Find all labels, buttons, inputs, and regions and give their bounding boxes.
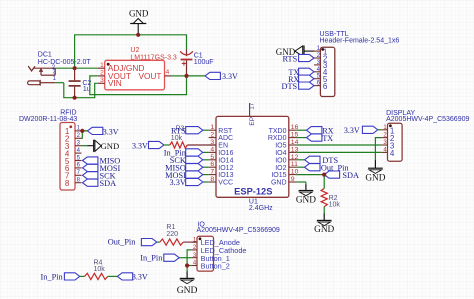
svg-text:2.4GHz: 2.4GHz xyxy=(249,205,273,212)
svg-text:Header-Female-2.54_1x6: Header-Female-2.54_1x6 xyxy=(320,38,400,45)
svg-text:U2: U2 xyxy=(130,47,139,54)
svg-text:IO16: IO16 xyxy=(218,150,233,157)
svg-text:TXD0: TXD0 xyxy=(269,128,287,135)
svg-text:IO2: IO2 xyxy=(275,165,286,172)
svg-text:10k: 10k xyxy=(94,266,106,273)
svg-text:A2005HWV-4P_C5366909: A2005HWV-4P_C5366909 xyxy=(197,227,280,234)
svg-text:2: 2 xyxy=(210,132,214,139)
svg-text:10k: 10k xyxy=(171,135,183,142)
svg-text:GND: GND xyxy=(271,180,287,187)
svg-text:220: 220 xyxy=(166,231,178,238)
svg-text:8: 8 xyxy=(65,179,70,188)
svg-text:Button_2: Button_2 xyxy=(201,262,230,271)
svg-text:A2005HWV-4P_C5366909: A2005HWV-4P_C5366909 xyxy=(386,116,469,123)
svg-text:1: 1 xyxy=(210,124,214,131)
svg-text:17: 17 xyxy=(249,102,256,110)
svg-text:6: 6 xyxy=(210,161,214,168)
svg-text:HC-DC-005-2.0T: HC-DC-005-2.0T xyxy=(38,59,92,66)
svg-text:IO4: IO4 xyxy=(275,150,286,157)
svg-text:ESP-12S: ESP-12S xyxy=(234,187,272,197)
svg-text:100uF: 100uF xyxy=(194,59,214,66)
svg-text:SDA: SDA xyxy=(100,179,117,188)
svg-text:GND: GND xyxy=(365,174,385,184)
svg-text:5: 5 xyxy=(210,154,214,161)
svg-text:3.3V: 3.3V xyxy=(132,141,148,150)
svg-text:VCC: VCC xyxy=(218,180,233,187)
svg-text:9: 9 xyxy=(291,176,295,183)
svg-text:IO5: IO5 xyxy=(275,143,286,150)
svg-text:3.3V: 3.3V xyxy=(344,126,360,135)
svg-text:8: 8 xyxy=(210,176,214,183)
svg-text:EP: EP xyxy=(249,117,256,126)
svg-text:GND: GND xyxy=(101,141,120,151)
svg-text:IO12: IO12 xyxy=(218,165,233,172)
svg-text:IO13: IO13 xyxy=(218,172,233,179)
svg-text:EN: EN xyxy=(218,143,228,150)
svg-text:VOUT: VOUT xyxy=(138,71,161,81)
svg-text:In_Pin: In_Pin xyxy=(140,254,163,263)
svg-text:GND: GND xyxy=(296,195,316,205)
svg-text:RTS: RTS xyxy=(282,54,297,63)
svg-text:VIN: VIN xyxy=(108,78,122,88)
svg-text:SDA: SDA xyxy=(342,171,359,180)
svg-text:RXD0: RXD0 xyxy=(268,135,287,142)
svg-text:6: 6 xyxy=(323,82,328,91)
svg-text:DW200R-11-08-43: DW200R-11-08-43 xyxy=(19,116,77,123)
svg-text:4: 4 xyxy=(210,146,214,153)
svg-text:IO14: IO14 xyxy=(218,157,233,164)
svg-text:Out_Pin: Out_Pin xyxy=(108,238,137,247)
svg-text:3.3V: 3.3V xyxy=(170,178,186,187)
svg-text:10k: 10k xyxy=(329,201,341,208)
svg-text:DTS: DTS xyxy=(282,82,298,91)
svg-text:RST: RST xyxy=(218,128,233,135)
svg-text:GND: GND xyxy=(129,8,149,18)
svg-text:ADC: ADC xyxy=(218,135,233,142)
svg-text:In_Pin: In_Pin xyxy=(41,273,64,282)
svg-text:GND: GND xyxy=(177,285,198,296)
svg-text:3.3V: 3.3V xyxy=(222,72,238,81)
svg-text:3.3V: 3.3V xyxy=(132,273,148,282)
svg-text:4: 4 xyxy=(166,69,170,76)
svg-text:IO15: IO15 xyxy=(271,172,286,179)
svg-text:GND: GND xyxy=(314,225,334,235)
svg-text:4: 4 xyxy=(390,149,395,158)
svg-text:7: 7 xyxy=(210,169,214,176)
svg-text:TX: TX xyxy=(322,134,333,143)
svg-text:DC1: DC1 xyxy=(38,52,52,59)
svg-text:3.3V: 3.3V xyxy=(103,127,119,136)
svg-text:IO0: IO0 xyxy=(275,157,286,164)
